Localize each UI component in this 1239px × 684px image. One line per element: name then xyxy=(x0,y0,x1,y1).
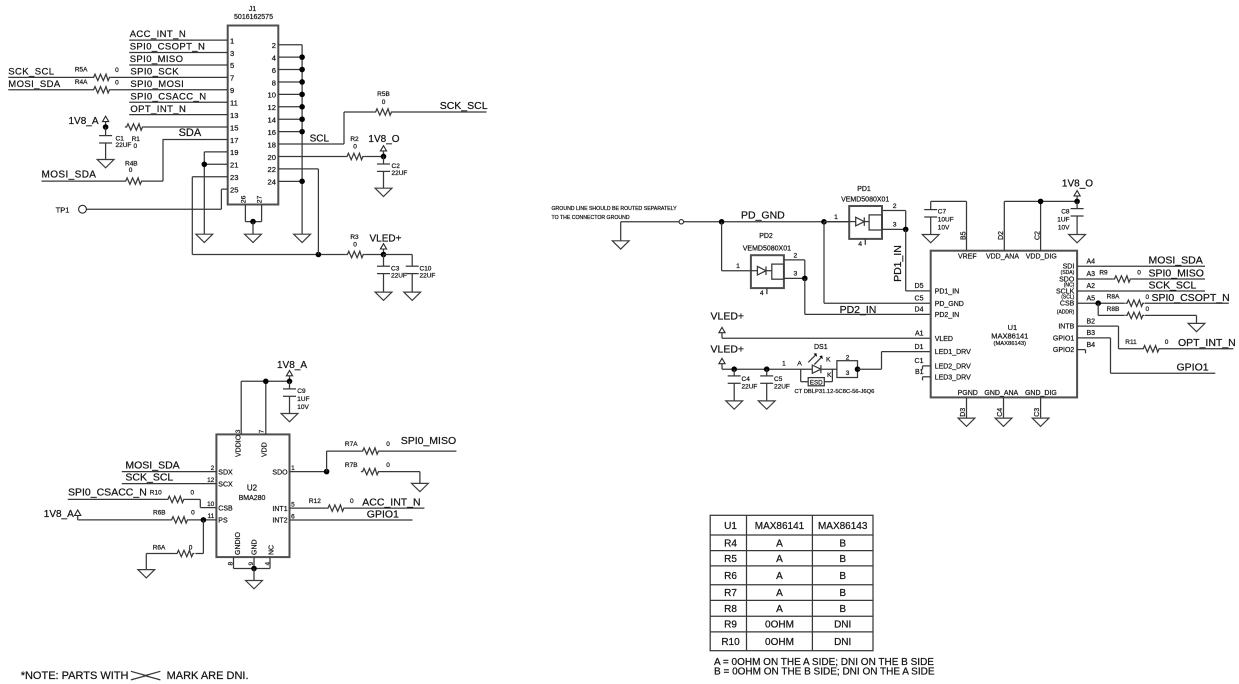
net label SPI0_MISO xyxy=(130,54,184,65)
node 1V8_A C9 junction xyxy=(287,379,293,385)
wire SCK_SCL to R5A xyxy=(8,76,92,78)
svg-text:0: 0 xyxy=(1145,306,1149,313)
svg-text:R5: R5 xyxy=(724,554,737,565)
svg-text:10: 10 xyxy=(268,91,276,100)
resistor R6A xyxy=(153,520,204,557)
svg-text:5: 5 xyxy=(291,501,295,508)
wire SCLK SCK_SCL xyxy=(1077,290,1205,292)
ESD protection diode xyxy=(801,369,833,386)
wire R2 to 1V8_O xyxy=(364,155,383,157)
pin designator C4 xyxy=(997,408,1004,417)
PD1 pin 4 stub xyxy=(858,239,865,248)
capacitor C5 22UF xyxy=(760,369,790,401)
svg-text:A: A xyxy=(797,360,802,367)
svg-text:10V: 10V xyxy=(938,225,950,232)
svg-text:R10: R10 xyxy=(721,637,740,648)
connector J1 5016162575 body xyxy=(228,6,279,205)
svg-text:R11: R11 xyxy=(1125,339,1137,346)
ground C9 xyxy=(281,414,298,422)
svg-text:C1: C1 xyxy=(915,358,924,365)
node 1V8_O C8 junction xyxy=(1074,199,1080,205)
svg-text:ACC_INT_N: ACC_INT_N xyxy=(130,29,186,40)
svg-text:22UF: 22UF xyxy=(116,142,132,149)
svg-text:B = 0OHM ON THE B SIDE; DNI ON: B = 0OHM ON THE B SIDE; DNI ON THE A SID… xyxy=(714,666,935,677)
svg-text:K: K xyxy=(826,357,831,364)
net label SCK_SCL U2 xyxy=(125,472,173,484)
pin designators U1 left xyxy=(915,283,924,376)
svg-text:1V8_O: 1V8_O xyxy=(1062,179,1093,190)
pin 10 CSB xyxy=(207,501,233,512)
svg-text:C3: C3 xyxy=(391,265,400,272)
resistor R7B xyxy=(345,462,390,475)
net label SPI0_CSACC_N xyxy=(68,487,147,499)
svg-text:VEMD5080X01: VEMD5080X01 xyxy=(841,197,889,204)
wire VLED+ LED rail xyxy=(722,368,812,370)
svg-text:U2: U2 xyxy=(247,483,258,492)
svg-text:C8: C8 xyxy=(1061,209,1070,216)
svg-text:3: 3 xyxy=(794,271,798,278)
svg-text:GPIO1: GPIO1 xyxy=(1177,361,1209,373)
resistor R11 xyxy=(1125,339,1168,352)
svg-text:D1: D1 xyxy=(915,344,924,351)
net label SPI0_SCK xyxy=(130,66,179,77)
PD2 pin 3 wire xyxy=(784,271,805,279)
svg-text:U1: U1 xyxy=(724,521,737,532)
wire pin5 xyxy=(129,64,228,66)
svg-text:SPI0_MISO: SPI0_MISO xyxy=(1149,267,1204,279)
pin names U1 right xyxy=(1053,264,1075,354)
svg-text:22UF: 22UF xyxy=(391,273,407,280)
pin 6 INT2 xyxy=(272,513,295,524)
net label ACC_INT_N U2 xyxy=(362,497,420,509)
svg-text:12: 12 xyxy=(207,477,215,484)
svg-text:SCK_SCL: SCK_SCL xyxy=(1149,279,1197,291)
svg-text:7: 7 xyxy=(258,429,265,433)
svg-text:A4: A4 xyxy=(1087,259,1096,266)
svg-text:DS1: DS1 xyxy=(814,344,828,351)
wire pin20 xyxy=(278,155,345,157)
wire PD_GND xyxy=(621,222,679,241)
resistor R10 xyxy=(150,490,195,503)
pin 5 INT1 xyxy=(272,501,295,512)
svg-text:D4: D4 xyxy=(915,307,924,314)
svg-text:22UF: 22UF xyxy=(774,383,790,390)
net label PD_GND xyxy=(741,210,785,222)
svg-text:0: 0 xyxy=(350,498,354,505)
svg-text:R8: R8 xyxy=(724,604,737,615)
svg-text:R6B: R6B xyxy=(153,509,166,516)
svg-text:GROUND LINE SHOULD BE ROUTED S: GROUND LINE SHOULD BE ROUTED SEPARATELY xyxy=(552,206,678,212)
svg-text:B5: B5 xyxy=(960,231,967,240)
wire SDI MOSI_SDA xyxy=(1077,265,1205,267)
ground C3 xyxy=(375,292,392,300)
note ground line routing xyxy=(552,206,678,221)
capacitor C4 22UF xyxy=(728,369,758,401)
power VLED+ J1 xyxy=(370,234,402,255)
net label GPIO1 U1 xyxy=(1177,361,1209,373)
svg-text:A3: A3 xyxy=(1087,271,1096,278)
wire R7A to SPI0_MISO xyxy=(380,450,457,452)
wire SDO to R7A xyxy=(327,451,361,472)
wire GND_ANA xyxy=(1003,397,1005,418)
svg-text:R8B: R8B xyxy=(1107,306,1120,313)
svg-text:R10: R10 xyxy=(150,490,162,497)
svg-text:VDD: VDD xyxy=(261,442,268,457)
wires pins 4-16 with junctions xyxy=(278,54,305,134)
svg-text:9: 9 xyxy=(248,562,255,566)
svg-text:GND_ANA: GND_ANA xyxy=(984,390,1018,397)
svg-text:MAX86141: MAX86141 xyxy=(991,332,1028,341)
node SDO junction xyxy=(324,469,330,475)
net label SPI0_CSOPT_N U1 xyxy=(1152,292,1230,304)
ground PGND xyxy=(958,418,975,426)
svg-text:C9: C9 xyxy=(297,388,306,395)
svg-text:B1: B1 xyxy=(915,369,924,376)
svg-text:R4A: R4A xyxy=(75,79,88,86)
wire R6B to PS xyxy=(189,519,217,521)
svg-text:1UF: 1UF xyxy=(1057,217,1069,224)
svg-text:C2: C2 xyxy=(1034,231,1041,240)
svg-text:5016162575: 5016162575 xyxy=(234,14,273,21)
svg-text:PD_GND: PD_GND xyxy=(935,301,964,308)
svg-text:13: 13 xyxy=(230,111,238,120)
svg-text:R9: R9 xyxy=(1099,269,1108,276)
wire SDO xyxy=(290,471,327,473)
svg-text:10: 10 xyxy=(207,501,215,508)
svg-text:(MAX86143): (MAX86143) xyxy=(994,341,1027,347)
svg-text:10UF: 10UF xyxy=(938,217,954,224)
svg-text:0: 0 xyxy=(1145,294,1149,301)
svg-text:B4: B4 xyxy=(1087,342,1096,349)
ground C4 xyxy=(726,401,743,409)
power 1V8_O xyxy=(368,134,399,157)
capacitor C3 22UF xyxy=(377,255,407,293)
part number DS1 xyxy=(795,389,875,395)
svg-text:A: A xyxy=(776,588,783,599)
svg-text:1UF: 1UF xyxy=(297,396,309,403)
ground C1 xyxy=(97,160,114,168)
pin designator C2 xyxy=(1034,231,1041,240)
svg-text:LED3_DRV: LED3_DRV xyxy=(935,374,971,381)
wire VDDIO VDD supply xyxy=(241,381,289,434)
svg-text:12: 12 xyxy=(268,103,276,112)
net label GPIO1 U2 xyxy=(367,509,399,521)
wire pin21 xyxy=(204,163,227,165)
J1 right pin numbers 2-24 xyxy=(268,41,276,187)
svg-text:B: B xyxy=(839,538,846,549)
DNI mark symbol xyxy=(131,671,161,680)
svg-text:MOSI_SDA: MOSI_SDA xyxy=(42,170,97,181)
wire SDX xyxy=(122,471,217,473)
svg-text:DNI: DNI xyxy=(834,637,851,648)
svg-text:C4: C4 xyxy=(997,408,1004,417)
net label SDA xyxy=(179,127,202,139)
capacitor C7 10UF 10V xyxy=(924,201,954,234)
wire MOSI_SDA to R4A xyxy=(8,89,92,91)
pin names U1 top xyxy=(958,254,1057,261)
svg-text:PGND: PGND xyxy=(958,390,978,397)
wire VDD_ANA VDD_DIG supply xyxy=(1004,201,1077,250)
wire R12 to ACC_INT_N xyxy=(345,507,424,509)
pin designator C3 xyxy=(1034,408,1041,417)
svg-text:(ADDR): (ADDR) xyxy=(1057,309,1075,315)
svg-text:R7: R7 xyxy=(724,588,737,599)
ground R8B DNI xyxy=(1188,323,1205,331)
wire to C10 xyxy=(384,254,413,256)
wire PD_GND cont xyxy=(684,221,850,223)
net label SPI0_MISO U1 xyxy=(1149,267,1204,279)
svg-text:VREF: VREF xyxy=(958,254,977,261)
ground PD_GND left xyxy=(612,241,629,249)
capacitor C8 1UF 10V xyxy=(1057,201,1083,234)
wire SPI0_CSACC_N to R10 xyxy=(68,498,166,500)
PD1 pin 1 wire xyxy=(824,214,849,222)
wire DS1 to LED1_DRV xyxy=(858,352,931,370)
svg-text:VDD_ANA: VDD_ANA xyxy=(986,254,1019,261)
net label SCK_SCL left xyxy=(8,66,54,77)
svg-text:SPI0_CSOPT_N: SPI0_CSOPT_N xyxy=(130,42,206,53)
power 1V8_O U1 xyxy=(1062,179,1093,202)
node pin21 junction xyxy=(202,162,208,168)
pin 11 PS xyxy=(208,513,228,524)
svg-text:SDX: SDX xyxy=(218,469,233,476)
svg-text:MOSI_SDA: MOSI_SDA xyxy=(125,460,179,472)
svg-text:22: 22 xyxy=(268,165,276,174)
ground R6A xyxy=(138,570,155,578)
svg-text:DNI: DNI xyxy=(834,620,851,631)
svg-text:SCK_SCL: SCK_SCL xyxy=(440,100,488,112)
svg-text:GNDIO: GNDIO xyxy=(235,532,242,556)
svg-text:MOSI_SDA: MOSI_SDA xyxy=(8,79,61,90)
svg-text:10V: 10V xyxy=(297,404,309,411)
accelerometer U2 BMA280 body xyxy=(216,434,289,557)
pin designator D3 xyxy=(960,408,967,417)
svg-text:1: 1 xyxy=(291,465,295,472)
svg-text:NC: NC xyxy=(268,545,275,555)
svg-text:B2: B2 xyxy=(1087,318,1096,325)
node VLED wire junction xyxy=(316,252,322,258)
ground C8 xyxy=(1069,235,1086,243)
svg-text:B: B xyxy=(839,554,846,565)
node C4 junction xyxy=(731,366,737,372)
svg-text:8: 8 xyxy=(272,78,276,87)
node PD1 cathode junction xyxy=(903,227,909,233)
pin names U1 bottom xyxy=(958,390,1057,397)
svg-text:2: 2 xyxy=(272,41,276,50)
resistor R4A xyxy=(75,79,119,93)
svg-text:20: 20 xyxy=(268,153,276,162)
svg-text:R4: R4 xyxy=(724,538,737,549)
svg-text:3: 3 xyxy=(846,370,850,377)
wire R9 to SPI0_MISO xyxy=(1132,278,1205,280)
svg-text:14: 14 xyxy=(268,116,276,125)
svg-text:4: 4 xyxy=(264,562,271,566)
svg-text:1: 1 xyxy=(230,36,234,45)
svg-text:TO THE CONNECTOR GROUND: TO THE CONNECTOR GROUND xyxy=(552,215,630,221)
pin labels 3 7 VDDIO VDD xyxy=(235,429,268,457)
wire R11 to OPT_INT_N xyxy=(1161,348,1234,350)
svg-text:0: 0 xyxy=(189,545,193,552)
stub GPIO2 xyxy=(1077,350,1085,354)
svg-text:24: 24 xyxy=(268,178,276,187)
svg-text:4: 4 xyxy=(760,290,764,297)
capacitor C2 22UF xyxy=(377,156,407,188)
svg-text:0: 0 xyxy=(353,143,357,150)
svg-text:VDD_DIG: VDD_DIG xyxy=(1026,254,1057,261)
resistor R12 xyxy=(309,498,354,511)
net label SCK_SCL right xyxy=(440,100,488,112)
svg-text:SDA: SDA xyxy=(179,127,202,139)
svg-text:SPI0_MOSI: SPI0_MOSI xyxy=(130,79,184,90)
connector pad 2 3 box xyxy=(837,354,858,377)
power 1V8_A PS xyxy=(44,509,81,520)
svg-text:A2: A2 xyxy=(1087,283,1096,290)
svg-text:0: 0 xyxy=(353,242,357,249)
net label SCK_SCL U1 xyxy=(1149,279,1197,291)
ground GND_DIG xyxy=(1032,418,1049,426)
wire R6A to ground xyxy=(146,554,175,570)
svg-text:SPI0_CSOPT_N: SPI0_CSOPT_N xyxy=(1152,292,1230,304)
wire VLED to U1 xyxy=(722,337,931,339)
svg-text:ESD: ESD xyxy=(810,379,823,386)
net label SPI0_CSACC_N xyxy=(130,91,206,102)
wire R4B up to SDA xyxy=(143,140,163,181)
node CSB junction xyxy=(1095,300,1101,306)
pin 2 SDX xyxy=(211,465,233,476)
svg-text:B: B xyxy=(839,604,846,615)
stub LED3_DRV xyxy=(923,377,931,381)
svg-text:PD_GND: PD_GND xyxy=(741,210,785,222)
note parts DNI xyxy=(21,670,249,682)
svg-text:LED2_DRV: LED2_DRV xyxy=(935,364,971,371)
svg-text:R9: R9 xyxy=(724,620,737,631)
svg-text:VDDIO: VDDIO xyxy=(236,434,243,457)
net label PD2_IN xyxy=(840,304,877,316)
svg-text:VLED+: VLED+ xyxy=(711,344,745,356)
svg-text:VEMD5080X01: VEMD5080X01 xyxy=(743,246,791,253)
svg-text:3: 3 xyxy=(230,49,234,58)
svg-text:26: 26 xyxy=(240,195,247,203)
LED DS1 xyxy=(808,344,832,379)
wire PD_GND to U1 xyxy=(824,222,931,303)
net label SPI0_MISO U2 xyxy=(401,435,456,447)
svg-text:22UF: 22UF xyxy=(420,273,436,280)
wire R5B to SCK_SCL xyxy=(393,111,487,113)
svg-text:PS: PS xyxy=(218,518,228,525)
svg-text:R6: R6 xyxy=(724,571,737,582)
svg-text:R2: R2 xyxy=(350,136,359,143)
svg-text:A: A xyxy=(776,554,783,565)
svg-text:OPT_INT_N: OPT_INT_N xyxy=(1178,337,1236,349)
resistor R7A xyxy=(345,441,390,454)
svg-text:23: 23 xyxy=(230,173,238,182)
svg-text:R5A: R5A xyxy=(75,67,88,74)
wire pin19 xyxy=(204,152,227,234)
svg-text:1: 1 xyxy=(834,214,838,221)
wire R3 to VLED+ xyxy=(365,254,384,256)
svg-text:PD2_IN: PD2_IN xyxy=(840,304,877,316)
resistor R8B xyxy=(1107,306,1150,319)
node pin26-27 junction xyxy=(250,219,256,234)
svg-text:15: 15 xyxy=(230,123,238,132)
net label SPI0_CSOPT_N xyxy=(130,42,206,53)
wire R7B to ground xyxy=(380,472,420,484)
resistor R8A xyxy=(1107,294,1150,307)
wire GPIO1 xyxy=(1077,338,1215,373)
resistor R2 xyxy=(345,136,364,160)
svg-text:0: 0 xyxy=(386,441,390,448)
svg-text:PD2: PD2 xyxy=(759,233,773,240)
svg-text:MOSI_SDA: MOSI_SDA xyxy=(1149,255,1203,267)
svg-text:1V8_A: 1V8_A xyxy=(277,360,307,371)
stub LED2_DRV xyxy=(923,366,931,370)
photodiode PD2 VEMD5080X01 xyxy=(743,233,791,288)
wire PD1_IN to U1 xyxy=(906,229,931,291)
svg-text:9: 9 xyxy=(230,86,234,95)
svg-text:GPIO2: GPIO2 xyxy=(1053,347,1075,354)
optical AFE U1 MAX86141 body xyxy=(931,251,1077,398)
capacitor C10 22UF xyxy=(406,255,436,293)
svg-text:1: 1 xyxy=(736,263,740,270)
svg-text:22UF: 22UF xyxy=(392,170,408,177)
svg-text:B: B xyxy=(839,571,846,582)
svg-text:CSB: CSB xyxy=(1060,301,1075,308)
node PS junction xyxy=(201,517,207,523)
svg-text:CT DBLP31.12-5C8C-56-J6Q6: CT DBLP31.12-5C8C-56-J6Q6 xyxy=(795,389,875,395)
svg-text:C5: C5 xyxy=(915,295,924,302)
node PD2 cathode junction xyxy=(802,276,808,282)
net label OPT_INT_N U1 xyxy=(1178,337,1236,349)
svg-text:SCX: SCX xyxy=(218,481,233,488)
svg-text:R7B: R7B xyxy=(345,462,358,469)
svg-text:VLED+: VLED+ xyxy=(711,310,745,322)
svg-text:SPI0_SCK: SPI0_SCK xyxy=(130,66,179,77)
power 1V8_A U2 xyxy=(277,360,307,382)
wire 1V8_A to R6B xyxy=(78,519,170,521)
ground GND_ANA xyxy=(995,418,1012,426)
svg-text:SCK_SCL: SCK_SCL xyxy=(8,66,54,77)
pin A label DS1 xyxy=(797,360,802,367)
J1 left pin numbers 1-25 xyxy=(230,36,238,194)
resistor R6B xyxy=(153,509,195,523)
wire U2 ground pins xyxy=(234,557,271,568)
wire pin23 to VLED net xyxy=(192,177,345,255)
ground R7B DNI xyxy=(412,483,429,491)
net label MOSI_SDA U1 xyxy=(1149,255,1203,267)
svg-text:C5: C5 xyxy=(774,376,783,383)
svg-text:0: 0 xyxy=(134,143,138,150)
svg-text:0OHM: 0OHM xyxy=(765,637,794,648)
net label SPI0_MOSI xyxy=(130,79,184,90)
svg-text:19: 19 xyxy=(230,148,238,157)
pin 1 SDO xyxy=(272,465,295,476)
power VLED+ upper xyxy=(711,310,745,338)
svg-text:R3: R3 xyxy=(350,234,359,241)
svg-text:3: 3 xyxy=(235,429,242,433)
svg-text:0OHM: 0OHM xyxy=(765,620,794,631)
pin names U1 left xyxy=(935,289,971,382)
wire SCX xyxy=(122,483,217,485)
svg-text:C10: C10 xyxy=(420,265,432,272)
svg-text:VLED+: VLED+ xyxy=(370,234,402,245)
PD2 pin 4 stub xyxy=(760,288,767,297)
net label MOSI_SDA U2 xyxy=(125,460,179,472)
wire GND_DIG xyxy=(1040,397,1042,418)
svg-text:2: 2 xyxy=(846,354,850,361)
node VDD_DIG junction xyxy=(1038,199,1044,205)
svg-text:PD1_IN: PD1_IN xyxy=(892,245,904,282)
node 1V8_O junction xyxy=(381,154,387,160)
